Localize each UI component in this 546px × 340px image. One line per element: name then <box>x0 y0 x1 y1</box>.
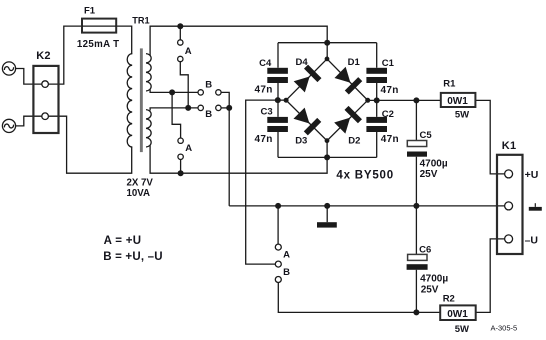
svg-text:C3: C3 <box>261 106 273 117</box>
TR1 secondary winding 1 <box>146 54 151 91</box>
svg-text:0W1: 0W1 <box>447 96 468 107</box>
wire R2 to K1 -U terminal <box>476 239 505 313</box>
jumper A/B lower-middle circles <box>275 244 281 282</box>
svg-text:C2: C2 <box>382 109 394 120</box>
capacitor C3 <box>267 117 288 132</box>
node diamond right vertex <box>365 98 370 103</box>
svg-text:A = +U: A = +U <box>104 235 142 247</box>
bridge rectangle left edge segments with C4 C3 <box>277 43 279 158</box>
diode D1 <box>333 66 362 95</box>
wire node to lower A jumper (left) <box>172 92 181 138</box>
jumper B pair 1 circles <box>198 90 221 95</box>
node diamond bottom vertex <box>325 138 330 143</box>
svg-text:47n: 47n <box>255 85 273 96</box>
svg-text:B: B <box>283 267 290 278</box>
node secondary1 junction <box>169 89 175 95</box>
svg-text:25V: 25V <box>420 169 438 180</box>
wire ground rail <box>229 205 505 207</box>
svg-text:R1: R1 <box>443 79 456 90</box>
wire secondary1 top to top rail and down to bridge top <box>150 26 327 59</box>
bridge rectangle top edge <box>278 42 377 44</box>
jumper A lower-left circles <box>178 138 183 160</box>
svg-text:A-305-5: A-305-5 <box>491 323 518 332</box>
svg-text:K1: K1 <box>502 140 516 152</box>
svg-text:0W1: 0W1 <box>447 309 468 320</box>
wire secondary2 bottom along bottom rail to bridge bottom <box>150 141 327 174</box>
node top rail A <box>177 23 183 29</box>
TR1 secondary winding 2 <box>146 110 151 147</box>
svg-text:TR1: TR1 <box>132 16 149 26</box>
wire lower jumper bottom to R2 <box>278 283 440 313</box>
svg-text:+U: +U <box>525 169 539 181</box>
diode D3 <box>292 106 321 135</box>
node B jumper right <box>226 105 232 111</box>
svg-text:D3: D3 <box>295 136 307 147</box>
svg-text:D2: D2 <box>348 136 360 147</box>
wire R1 to K1 +U terminal <box>475 100 505 173</box>
bridge rectangle bottom edge <box>278 156 377 158</box>
svg-text:47n: 47n <box>381 134 399 145</box>
jumper B pair 2 circles <box>198 105 221 110</box>
AC source (top) <box>2 62 15 75</box>
wire C6 to bottom negative rail <box>415 270 417 313</box>
bridge diamond arms <box>286 59 368 141</box>
resistor R2 <box>440 305 476 320</box>
svg-text:F1: F1 <box>84 6 96 17</box>
diode D4 <box>293 65 322 94</box>
jumper A top circles <box>178 40 183 62</box>
wire K2 bottom terminal to TR1 primary bottom <box>48 116 132 173</box>
node R1 row C5 column <box>413 97 419 103</box>
wire top rail to A jumper top <box>179 26 181 40</box>
svg-text:D1: D1 <box>348 57 361 68</box>
node bridge rect left <box>275 97 281 103</box>
node bridge top edge <box>324 40 330 46</box>
ground <box>317 222 337 227</box>
wire ground rail to lower jumper top <box>277 206 279 244</box>
fuse F1 <box>82 19 116 33</box>
svg-text:47n: 47n <box>255 134 273 145</box>
wire bridge rect to diamond left vertex <box>278 99 286 101</box>
capacitor C1 <box>366 68 387 83</box>
wire node to C5 <box>415 100 417 140</box>
svg-text:4x BY500: 4x BY500 <box>336 169 394 181</box>
wire A jumper bottom down to secondary2 row <box>180 62 188 108</box>
svg-text:5W: 5W <box>455 109 469 120</box>
wire secondary1 bottom to B jumper row <box>150 90 198 93</box>
svg-text:–U: –U <box>525 235 538 247</box>
svg-text:A: A <box>185 143 192 154</box>
wire through fuse <box>82 25 116 27</box>
svg-text:4700µ: 4700µ <box>420 159 448 170</box>
svg-text:C6: C6 <box>419 245 431 256</box>
connector K1 <box>497 155 523 254</box>
capacitor C2 <box>366 117 387 132</box>
node negative rail C6 <box>413 309 419 315</box>
svg-text:5W: 5W <box>455 324 469 335</box>
ground symbol at K1 middle <box>529 203 542 211</box>
svg-text:A: A <box>283 250 290 261</box>
wire fuse to TR1 primary top <box>116 26 132 54</box>
resistor R1 <box>441 93 476 107</box>
svg-text:K2: K2 <box>36 50 50 62</box>
svg-text:B: B <box>205 80 212 91</box>
svg-text:D4: D4 <box>296 57 309 68</box>
svg-text:47n: 47n <box>381 85 399 96</box>
diode D2 <box>333 106 362 135</box>
node ground rail C5 C6 <box>413 203 419 209</box>
wire AC2 to K2 bottom terminal <box>16 116 43 126</box>
bridge rectangle right edge segments with C1 C2 <box>376 43 378 158</box>
node ground rail earth <box>324 203 330 209</box>
svg-text:125mA T: 125mA T <box>77 39 119 50</box>
svg-text:2X 7V: 2X 7V <box>127 178 154 189</box>
TR1 primary winding <box>127 54 132 147</box>
transformer TR1 <box>127 54 151 147</box>
wire ground symbol stub <box>326 206 328 222</box>
svg-text:C4: C4 <box>259 58 272 69</box>
svg-text:R2: R2 <box>443 294 455 305</box>
wire bridge right vertex to R1 <box>368 99 441 101</box>
svg-text:B: B <box>205 109 212 120</box>
node bottom rail lower A <box>178 170 184 176</box>
wire ground rail to C6 <box>415 206 417 255</box>
node bridge bottom edge <box>324 154 330 160</box>
wire K2 top terminal to fuse F1 <box>48 26 82 84</box>
node diamond top vertex <box>325 57 330 62</box>
wire secondary2 top to lower B jumper row <box>150 108 198 111</box>
capacitor C4 <box>267 68 288 83</box>
wire lower A jumper (left) to bottom rail <box>180 160 182 174</box>
node diamond left vertex <box>284 98 289 103</box>
wire bridge left node to middle jumper <box>246 100 278 264</box>
svg-text:10VA: 10VA <box>127 188 151 199</box>
AC source (bottom) <box>2 119 15 132</box>
capacitor C5 electrolytic <box>407 141 427 157</box>
connector K2 <box>33 66 58 133</box>
capacitor C6 electrolytic <box>407 254 428 269</box>
svg-text:B = +U, –U: B = +U, –U <box>103 251 163 263</box>
wire top B jumper right down to ground rail <box>221 92 229 205</box>
node bridge rect right <box>374 97 380 103</box>
svg-text:A: A <box>185 46 192 57</box>
wire AC1 to K2 top terminal <box>16 69 43 85</box>
node ground rail jumper <box>275 203 281 209</box>
svg-text:C5: C5 <box>420 130 433 141</box>
wire C5 to ground rail <box>415 157 417 206</box>
wire lower B jumper right to vertical <box>221 107 229 109</box>
svg-text:25V: 25V <box>421 285 439 296</box>
svg-text:4700µ: 4700µ <box>420 274 448 285</box>
TR1 core <box>140 48 143 152</box>
node secondary2 junction <box>185 105 191 111</box>
svg-text:C1: C1 <box>382 58 395 69</box>
